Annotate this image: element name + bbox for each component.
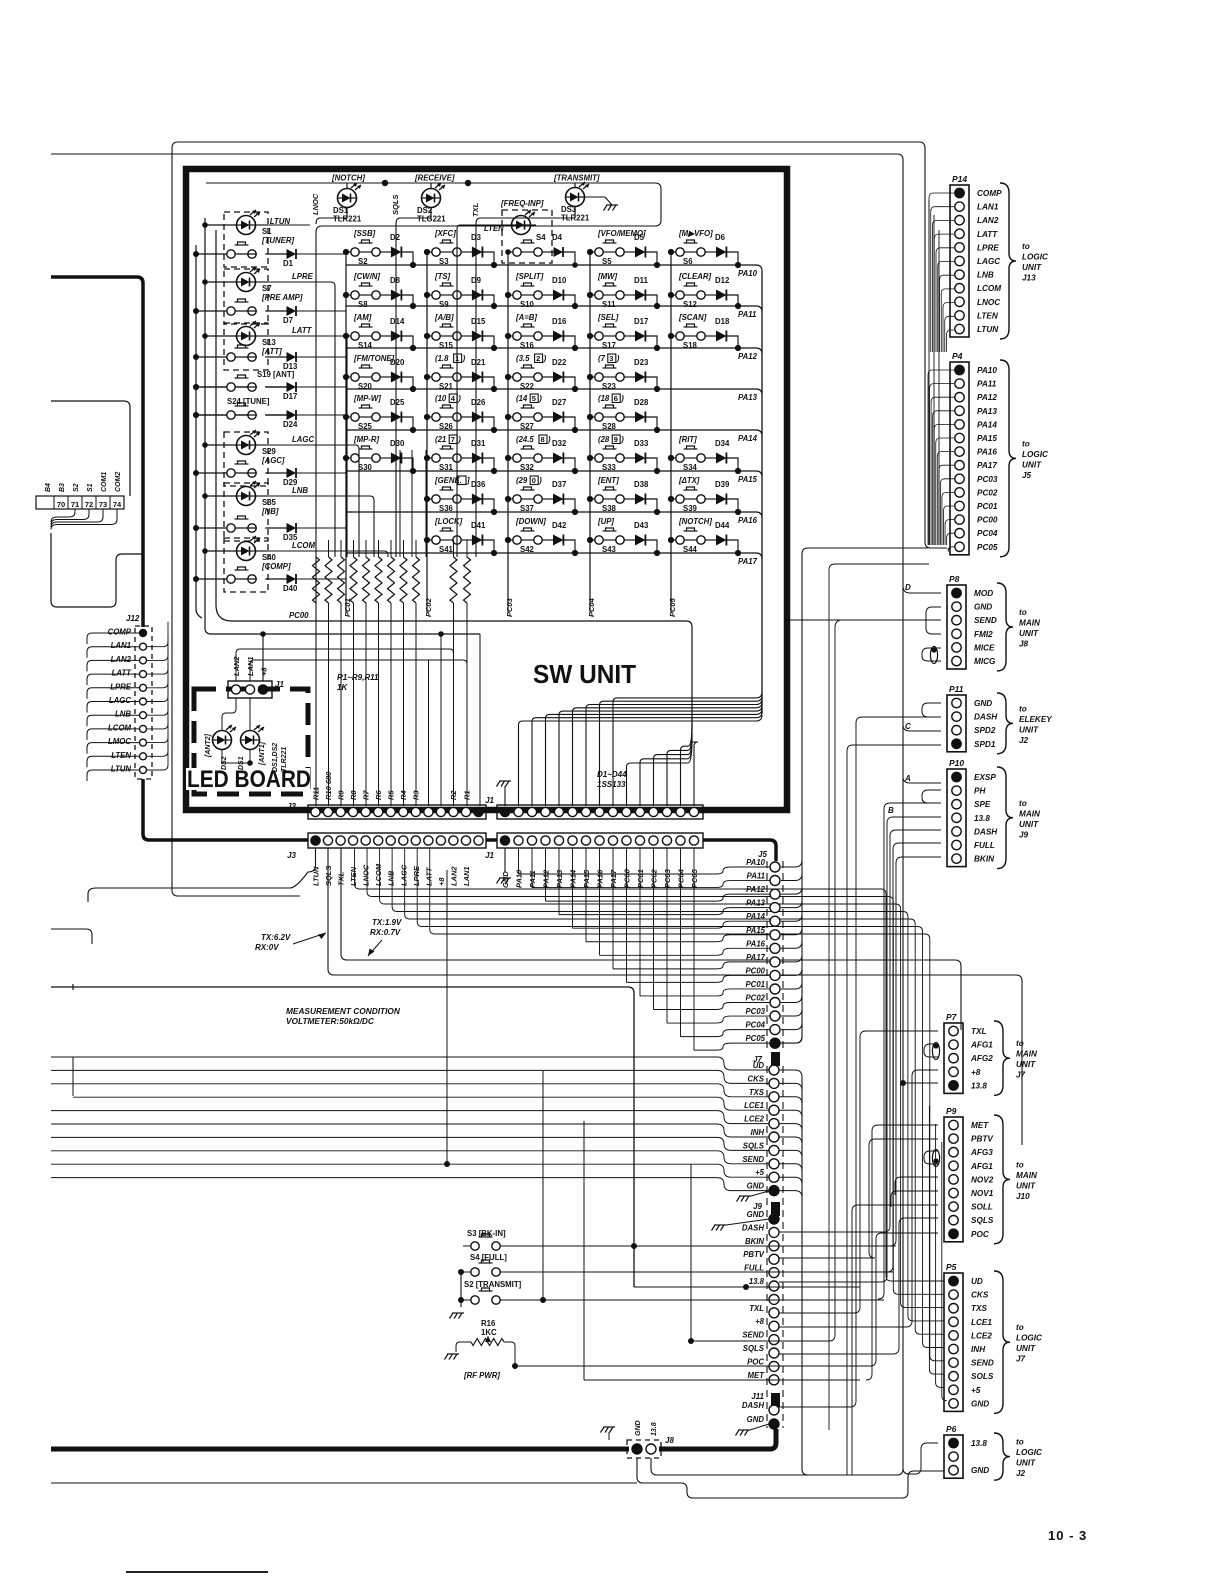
svg-text:PA13: PA13 [555, 869, 564, 888]
wire SQLS east bus entry [779, 1150, 802, 1157]
wire LCOM left hook [87, 729, 139, 740]
svg-text:S38: S38 [602, 504, 617, 513]
svg-text:D8: D8 [390, 276, 401, 285]
svg-text:LTEN: LTEN [977, 311, 999, 320]
svg-text:FULL: FULL [744, 1264, 764, 1273]
wire hook left bus [72, 1057, 74, 1096]
cell wires [671, 498, 676, 500]
svg-text:PA13: PA13 [977, 407, 997, 416]
svg-text:[COMP]: [COMP] [261, 562, 291, 571]
svg-text:to: to [1019, 704, 1027, 713]
svg-text:PC05: PC05 [745, 1034, 765, 1043]
svg-text:(10: (10 [435, 394, 447, 403]
diode D6 [716, 247, 726, 258]
P4 wire bundle [928, 370, 954, 545]
svg-text:70: 70 [57, 500, 65, 509]
svg-text:9: 9 [614, 435, 618, 444]
wire vertical to SEND [446, 870, 448, 1164]
wire LMOC left hook [87, 743, 139, 754]
svg-text:PC03: PC03 [977, 475, 998, 484]
wire PA12 west cascade [546, 894, 771, 901]
diode D38 [635, 494, 645, 505]
svg-text:PC03: PC03 [745, 1007, 765, 1016]
wire PA17 east bus entry [781, 955, 802, 962]
svg-text:S25: S25 [358, 422, 373, 431]
net LTUN run [268, 224, 310, 226]
svg-text:TLR221: TLR221 [281, 747, 288, 772]
svg-text:J1: J1 [485, 851, 494, 860]
svg-text:+8: +8 [755, 1317, 765, 1326]
diode D15 [472, 331, 483, 342]
cell wires [671, 457, 676, 459]
svg-text:LPRE: LPRE [977, 243, 999, 252]
svg-text:S11: S11 [602, 300, 616, 309]
svg-text:LNB: LNB [977, 271, 994, 280]
diode D43 [635, 535, 645, 546]
svg-text:[ANT2]: [ANT2] [205, 733, 212, 758]
wire LCE1 east bus entry [779, 1110, 802, 1117]
svg-text:GND: GND [747, 1210, 765, 1219]
connector J7 bar [771, 1052, 780, 1066]
diode D7 [287, 306, 297, 316]
switch S35 [227, 524, 235, 532]
svg-text:TXL: TXL [471, 202, 480, 217]
ground at DS3 [606, 204, 618, 206]
wire LATT left hook [87, 674, 139, 685]
svg-text:D17: D17 [634, 317, 648, 326]
switch S27 [513, 413, 521, 421]
svg-text:to: to [1019, 799, 1027, 808]
svg-text:PC04: PC04 [977, 529, 998, 538]
thick bus from J12 to J5 [51, 277, 143, 627]
diode D1 [287, 249, 297, 259]
svg-text:J7: J7 [1016, 1355, 1026, 1364]
cell wires [590, 457, 595, 459]
cell wires [590, 294, 595, 296]
svg-text:S18: S18 [683, 341, 698, 350]
LED DS3 [566, 188, 585, 207]
svg-text:UD: UD [971, 1277, 983, 1286]
switch S38 [595, 495, 603, 503]
svg-text:NOV1: NOV1 [971, 1189, 994, 1198]
wire PC04 west cascade [681, 1030, 771, 1037]
svg-text:D3: D3 [471, 233, 482, 242]
resistor R11 [313, 557, 320, 603]
svg-text:PC01: PC01 [745, 980, 765, 989]
svg-text:P5: P5 [946, 1262, 957, 1272]
svg-text:PA11: PA11 [977, 380, 997, 389]
svg-text:UNIT: UNIT [1022, 263, 1042, 272]
svg-text:MEASUREMENT CONDITION: MEASUREMENT CONDITION [286, 1006, 401, 1016]
cell wires [508, 416, 513, 418]
svg-text:S22: S22 [520, 382, 535, 391]
connector P7 [944, 1023, 963, 1093]
svg-text:MICG: MICG [974, 657, 996, 666]
svg-text:S28: S28 [602, 422, 617, 431]
svg-text:D32: D32 [552, 439, 567, 448]
svg-text:0: 0 [532, 476, 536, 485]
wire long 13.8 left [51, 987, 634, 1287]
svg-text:to: to [1022, 242, 1030, 251]
svg-text:S29: S29 [262, 447, 277, 456]
wire drops to resistors [399, 450, 401, 557]
connector P8 [947, 585, 966, 669]
wire PA10 east bus entry [781, 860, 802, 867]
svg-text:D1: D1 [283, 259, 294, 268]
svg-text:S16: S16 [520, 341, 535, 350]
svg-text:S41: S41 [439, 545, 454, 554]
svg-text:LAN2: LAN2 [977, 216, 999, 225]
wire SQLS down [328, 848, 1022, 1145]
svg-text:+5: +5 [755, 1168, 765, 1177]
resistor R3 [413, 557, 420, 603]
cell wires [508, 498, 513, 500]
svg-text:B: B [888, 806, 894, 815]
wire LMOC right [147, 718, 168, 743]
svg-text:DASH: DASH [742, 1223, 764, 1232]
svg-text:PA15: PA15 [582, 869, 591, 888]
diode D11 [635, 290, 645, 301]
PC00 fan to J1 [627, 739, 693, 806]
svg-text:TLR221: TLR221 [333, 215, 362, 224]
svg-text:PC05: PC05 [690, 868, 699, 888]
svg-text:[M▶VFO]: [M▶VFO] [678, 229, 713, 238]
svg-text:): ) [620, 435, 624, 444]
diode D31 [472, 453, 483, 464]
ground at J1 lower [504, 848, 506, 872]
wire 13.8 mid [634, 1286, 860, 1288]
svg-text:BKIN: BKIN [974, 855, 995, 864]
svg-text:SPD2: SPD2 [974, 726, 996, 735]
svg-text:PBTV: PBTV [971, 1135, 994, 1144]
svg-text:D9: D9 [471, 276, 482, 285]
svg-text:DS1,DS2: DS1,DS2 [272, 743, 279, 772]
svg-text:R16: R16 [481, 1319, 496, 1328]
svg-text:SEND: SEND [974, 616, 997, 625]
svg-text:6: 6 [614, 394, 618, 403]
wire CKS east bus entry [779, 1083, 802, 1090]
svg-text:D27: D27 [552, 398, 566, 407]
svg-text:D14: D14 [390, 317, 405, 326]
switch S16 [513, 332, 521, 340]
svg-text:RX:0.7V: RX:0.7V [370, 928, 401, 937]
led board wires [222, 698, 236, 731]
svg-text:PA14: PA14 [738, 434, 758, 443]
P14 wire bundle [929, 193, 954, 352]
svg-text:SPE: SPE [974, 800, 991, 809]
wire PA12 east bus entry [781, 887, 802, 894]
svg-text:D1~D44: D1~D44 [597, 770, 627, 779]
svg-text:INH: INH [971, 1345, 986, 1354]
svg-text:S36: S36 [439, 504, 454, 513]
svg-text:MAIN: MAIN [1019, 619, 1041, 628]
svg-text:[MP-R]: [MP-R] [353, 435, 380, 444]
wire RF PWR [504, 1342, 515, 1366]
svg-text:S13: S13 [262, 338, 277, 347]
wire PC01 west cascade [640, 989, 770, 996]
svg-text:LOGIC: LOGIC [1022, 253, 1049, 262]
svg-text:S12: S12 [683, 300, 698, 309]
svg-text:PA15: PA15 [738, 475, 758, 484]
svg-text:MAIN: MAIN [1016, 1050, 1038, 1059]
svg-text:[FREQ-INP]: [FREQ-INP] [500, 199, 544, 208]
svg-text:2: 2 [536, 354, 540, 363]
svg-text:D5: D5 [634, 233, 645, 242]
svg-text:PA10: PA10 [515, 869, 524, 888]
cell wires [427, 457, 432, 459]
svg-text:D40: D40 [283, 584, 298, 593]
connector J1 lower [497, 833, 703, 848]
column bus PC01 [345, 252, 347, 612]
svg-text:SOLL: SOLL [971, 1203, 993, 1212]
svg-text:UNIT: UNIT [1016, 1181, 1036, 1190]
svg-text:to: to [1016, 1160, 1024, 1169]
wire COMP right [140, 643, 147, 650]
wire PC00 west cascade [627, 975, 771, 982]
svg-text:S24 [TUNE]: S24 [TUNE] [227, 397, 270, 406]
wire INH long left [51, 1124, 769, 1137]
wire PC01 east bus entry [781, 982, 802, 989]
switch S30 [351, 454, 359, 462]
svg-text:P4: P4 [952, 351, 963, 361]
wire SEND trunk south [691, 620, 841, 1341]
svg-text:D30: D30 [390, 439, 405, 448]
diode D14 [391, 331, 402, 342]
svg-text:PC04: PC04 [587, 597, 596, 617]
switch S11 [595, 291, 603, 299]
svg-text:D17: D17 [283, 392, 297, 401]
svg-text:SQLS: SQLS [743, 1141, 765, 1150]
cell wires [508, 457, 513, 459]
svg-text:[FM/TONE]: [FM/TONE] [353, 354, 395, 363]
svg-text:[A=B]: [A=B] [515, 313, 537, 322]
LED BOARD outline [194, 689, 308, 794]
LED LATT [224, 323, 268, 370]
svg-text:[TS]: [TS] [434, 272, 451, 281]
svg-text:R10 680: R10 680 [324, 771, 333, 800]
svg-text:D24: D24 [283, 420, 298, 429]
svg-text:LPRE: LPRE [412, 865, 421, 886]
wire DASH trunk to J11 [779, 717, 941, 1407]
display unit box (cut off) [51, 401, 130, 496]
svg-text:TXS: TXS [749, 1088, 765, 1097]
wire SEND east bus entry [779, 1164, 802, 1171]
switch S5 [595, 248, 603, 256]
connector P5 [944, 1273, 963, 1411]
svg-text:J8: J8 [665, 1436, 674, 1445]
diode D33 [635, 453, 645, 464]
svg-text:PC01: PC01 [977, 502, 998, 511]
svg-text:71: 71 [71, 500, 79, 509]
svg-text:PC02: PC02 [977, 488, 998, 497]
column bus PC04 [589, 252, 591, 612]
diode D8 [391, 290, 402, 301]
svg-text:S31: S31 [439, 463, 454, 472]
cell wires [427, 539, 432, 541]
switch S1 [227, 250, 235, 258]
svg-text:D12: D12 [715, 276, 730, 285]
svg-text:PC02: PC02 [424, 597, 433, 617]
svg-text:S4: S4 [536, 233, 546, 242]
svg-text:R5: R5 [387, 790, 396, 800]
svg-text:MAIN: MAIN [1016, 1171, 1038, 1180]
wire PC04 east bus entry [781, 1023, 802, 1030]
diode D44 [716, 535, 726, 546]
diode D28 [635, 412, 645, 423]
svg-text:LAN1: LAN1 [977, 203, 999, 212]
wire CKS long left [51, 1070, 769, 1083]
svg-text:LCOM: LCOM [108, 723, 131, 732]
switch S28 [595, 413, 603, 421]
wire PC05 east bus entry [781, 1036, 802, 1043]
svg-text:VOLTMETER:50kΩ/DC: VOLTMETER:50kΩ/DC [286, 1016, 375, 1026]
svg-text:PA13: PA13 [746, 899, 766, 908]
connector P10 [947, 769, 966, 867]
LED LPRE [224, 269, 268, 324]
svg-text:LATT: LATT [112, 669, 133, 678]
diode D18 [716, 331, 726, 342]
svg-text:73: 73 [99, 500, 107, 509]
wire PA15 west cascade [586, 935, 770, 942]
svg-text:LAN1: LAN1 [111, 641, 131, 650]
svg-text:S35: S35 [262, 498, 277, 507]
svg-text:PA14: PA14 [746, 912, 766, 921]
svg-text:.: . [460, 476, 462, 485]
svg-text:PA11: PA11 [747, 872, 765, 881]
svg-text:J8: J8 [1019, 640, 1029, 649]
svg-text:UD: UD [753, 1061, 765, 1070]
switch S25 [351, 413, 359, 421]
wire S switches common [460, 1272, 462, 1307]
svg-text:LAN1: LAN1 [246, 656, 255, 676]
svg-text:S27: S27 [520, 422, 534, 431]
cell wires [671, 251, 676, 253]
svg-text:ELEKEY: ELEKEY [1019, 715, 1053, 724]
wire +8 to J1 led [262, 634, 264, 681]
svg-text:CKS: CKS [971, 1291, 989, 1300]
matrix box edge / PC bus line [216, 230, 692, 730]
switch S29 [227, 469, 235, 477]
svg-text:GND: GND [747, 1182, 765, 1191]
net LCOM run [268, 551, 388, 557]
svg-text:D42: D42 [552, 521, 567, 530]
svg-text:[TRANSMIT]: [TRANSMIT] [553, 174, 600, 183]
diode D17 [287, 382, 297, 392]
wire LTEN left hook [87, 756, 139, 767]
svg-text:PC04: PC04 [745, 1021, 765, 1030]
svg-text:UNIT: UNIT [1022, 460, 1042, 469]
svg-text:TLR221: TLR221 [561, 214, 590, 223]
svg-text:D26: D26 [471, 398, 486, 407]
svg-text:[TUNER]: [TUNER] [261, 236, 294, 245]
svg-text:TXL: TXL [749, 1304, 764, 1313]
wire vertical to S2 [542, 1071, 544, 1300]
ground at S2 [452, 1312, 464, 1314]
svg-text:+8: +8 [437, 877, 446, 886]
svg-text:J12: J12 [126, 614, 140, 623]
svg-text:MOD: MOD [974, 589, 993, 598]
svg-text:MAIN: MAIN [1019, 809, 1041, 818]
svg-text:LTUN: LTUN [312, 866, 321, 886]
svg-text:PA16: PA16 [977, 448, 997, 457]
diode D42 [553, 535, 563, 546]
ground at J11 [738, 1429, 750, 1431]
svg-text:D23: D23 [634, 358, 649, 367]
wire J8 GND out [637, 1458, 944, 1498]
svg-text:[SSB]: [SSB] [353, 229, 376, 238]
svg-text:PA17: PA17 [977, 461, 997, 470]
wire UD east bus entry [779, 1070, 802, 1077]
resistor R7 [363, 557, 370, 603]
svg-text:P9: P9 [946, 1106, 957, 1116]
svg-text:74: 74 [113, 500, 122, 509]
display unit lower outline [51, 533, 142, 607]
switch S21 [432, 373, 440, 381]
svg-text:DASH: DASH [742, 1401, 764, 1410]
wire GND long left [51, 1178, 769, 1191]
svg-text:[UP]: [UP] [597, 517, 614, 526]
svg-text:LNOC: LNOC [977, 298, 1001, 307]
switch S43 [595, 536, 603, 544]
resistor R6 [375, 557, 382, 603]
svg-text:+5: +5 [971, 1386, 981, 1395]
wire UD long left [51, 1057, 769, 1070]
wire LAN2 left hook [87, 660, 139, 671]
resistor R9 [338, 557, 345, 603]
resistor R1 [464, 557, 471, 603]
wire frame line to PC05 [172, 142, 947, 896]
svg-text:D43: D43 [634, 521, 649, 530]
wire PA13 east bus entry [781, 901, 802, 908]
svg-text:FULL: FULL [974, 841, 995, 850]
LAN1 rail [250, 660, 467, 806]
diode D20 [391, 372, 402, 383]
wire TXS long left [51, 1084, 769, 1097]
svg-text:[SEL]: [SEL] [597, 313, 619, 322]
wire PA11 east bus entry [781, 874, 802, 881]
svg-text:PH: PH [974, 787, 986, 796]
cell wires [590, 376, 595, 378]
wire LAN1 left hook [87, 647, 139, 658]
svg-text:LOGIC: LOGIC [1022, 450, 1049, 459]
svg-text:(14: (14 [516, 394, 528, 403]
svg-text:J13: J13 [1022, 274, 1036, 283]
svg-text:J2: J2 [1016, 1469, 1026, 1478]
cell wires [590, 539, 595, 541]
switch S32 [513, 454, 521, 462]
switch S17 [595, 332, 603, 340]
svg-text:P11: P11 [949, 684, 964, 694]
wire LTUN left hook [87, 770, 139, 781]
mic twisted pair [930, 647, 937, 664]
wire J8 13.8 out [651, 1458, 903, 1475]
svg-text:AFG1: AFG1 [970, 1162, 993, 1171]
switch S18 [676, 332, 684, 340]
svg-text:PA10: PA10 [977, 366, 997, 375]
svg-text:): ) [457, 435, 461, 444]
svg-text:[PRE AMP]: [PRE AMP] [261, 293, 303, 302]
svg-text:S34: S34 [683, 463, 698, 472]
wire PC03 east bus entry [781, 1009, 802, 1016]
svg-text:to: to [1019, 608, 1027, 617]
wire INH east bus entry [779, 1137, 802, 1144]
ground at R16 [456, 1342, 471, 1352]
switch S42 [513, 536, 521, 544]
svg-text:S42: S42 [520, 545, 535, 554]
wire vertical SEND branch [690, 1164, 692, 1341]
svg-text:J2: J2 [1019, 736, 1029, 745]
svg-text:D4: D4 [552, 233, 563, 242]
